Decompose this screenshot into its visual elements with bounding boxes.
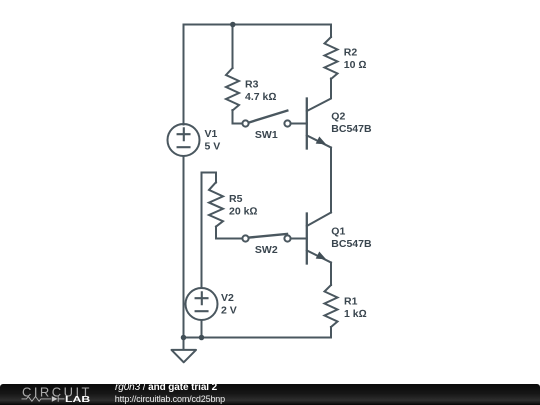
- svg-text:LAB: LAB: [65, 394, 90, 404]
- transistor Q2: [307, 79, 331, 149]
- switch SW2: [242, 234, 290, 242]
- node junction top (R3/top rail): [230, 22, 236, 28]
- transistor Q1: [307, 213, 331, 264]
- svg-text:5 V: 5 V: [205, 140, 221, 152]
- svg-text:10 Ω: 10 Ω: [344, 59, 367, 71]
- ground: [172, 338, 197, 363]
- node junction bottom left (ground/V1): [181, 335, 187, 341]
- wire SW2 to Q1 base: [291, 238, 307, 240]
- resistor R2: [325, 37, 338, 79]
- svg-text:2 V: 2 V: [221, 304, 237, 316]
- svg-text:4.7 kΩ: 4.7 kΩ: [245, 91, 276, 103]
- svg-text:1 kΩ: 1 kΩ: [344, 308, 367, 320]
- wire left rail upper (to V1): [183, 25, 185, 125]
- svg-text:R3: R3: [245, 79, 259, 91]
- footer url: [115, 394, 225, 404]
- wire R5 to SW2: [216, 227, 242, 239]
- voltage source V1: [168, 124, 200, 156]
- footer title: [115, 383, 217, 393]
- wire R2 top lead: [330, 25, 332, 38]
- svg-text:SW1: SW1: [255, 129, 278, 141]
- svg-text:Q2: Q2: [331, 111, 345, 123]
- wire R5 top lead: [215, 173, 217, 183]
- svg-text:BC547B: BC547B: [331, 123, 372, 135]
- CircuitLab logo: [0, 384, 110, 405]
- wire top rail: [184, 24, 332, 26]
- voltage source V2: [186, 288, 218, 320]
- svg-text:V1: V1: [205, 128, 218, 140]
- svg-text:R2: R2: [344, 47, 358, 59]
- svg-text:R5: R5: [229, 193, 243, 205]
- svg-text:BC547B: BC547B: [331, 238, 372, 250]
- wire bottom rail: [184, 337, 332, 339]
- svg-text:SW2: SW2: [255, 244, 278, 256]
- wire R1 bottom lead: [330, 327, 332, 338]
- wire Q2 emitter to Q1 collector: [330, 148, 332, 213]
- svg-text:R1: R1: [344, 296, 358, 308]
- node junction bottom (V2): [199, 335, 205, 341]
- wire R3 bottom lead to SW1: [233, 110, 243, 124]
- resistor R1: [325, 285, 338, 327]
- wire V2 top lead and hook to R5: [202, 173, 217, 289]
- wire V2 bottom lead: [201, 320, 203, 338]
- switch SW1: [242, 111, 290, 127]
- svg-text:V2: V2: [221, 292, 234, 304]
- resistor R3: [226, 68, 239, 111]
- wire Q1 emitter to R1: [330, 263, 332, 286]
- svg-text:Q1: Q1: [331, 226, 345, 238]
- wire R3 top lead: [232, 25, 234, 69]
- footer bar: [0, 384, 540, 405]
- resistor R5: [209, 182, 223, 226]
- svg-text:20 kΩ: 20 kΩ: [229, 205, 258, 217]
- wire left rail lower (V1 to bottom rail): [183, 156, 185, 338]
- wire SW1 to Q2 base: [291, 123, 307, 125]
